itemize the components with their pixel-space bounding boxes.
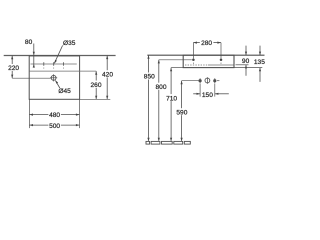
dimension 500 line xyxy=(29,124,79,126)
arrow 420 top (up) xyxy=(106,56,108,60)
arrow 480 right xyxy=(76,114,80,116)
svg-text:480: 480 xyxy=(49,112,60,119)
svg-text:Ø35: Ø35 xyxy=(63,40,76,47)
right view: faucet hole right circle xyxy=(220,58,223,61)
svg-text:80: 80 xyxy=(25,39,33,46)
dimension 135 top line xyxy=(259,46,261,56)
drain circle xyxy=(51,75,56,80)
arrow 710 bottom (down) xyxy=(170,138,172,142)
drain outlet right fixing dot xyxy=(214,80,216,82)
arrow 850 top (up) xyxy=(147,55,149,59)
right view: top edge long line xyxy=(147,54,264,56)
arrow 280 left xyxy=(193,42,197,44)
arrow 135 down xyxy=(259,52,261,56)
label 480 xyxy=(48,111,61,118)
dimension 850 line xyxy=(148,55,150,141)
svg-text:710: 710 xyxy=(166,95,177,102)
dimension 280 line right part xyxy=(213,42,221,44)
svg-text:150: 150 xyxy=(202,92,213,99)
svg-text:280: 280 xyxy=(201,40,212,47)
drain outlet left fixing dot xyxy=(199,80,201,82)
dimension 280 line left part xyxy=(193,42,200,44)
right view: basin front outline xyxy=(183,55,234,67)
faucet centerline xyxy=(31,63,77,65)
label 850 xyxy=(143,73,156,80)
right view: bottom edge extension right xyxy=(234,67,262,69)
arrow 150 right (pointing left) xyxy=(215,93,219,95)
faucet hole center xyxy=(53,62,55,66)
label 150 xyxy=(202,91,215,98)
leader line to Ø35 xyxy=(54,45,62,63)
drain outlet circle xyxy=(205,78,210,83)
dimension 80 line xyxy=(33,44,35,68)
dimension 135 bottom line xyxy=(259,68,261,82)
dimension 150 right arrow line xyxy=(215,93,229,95)
svg-text:590: 590 xyxy=(176,109,187,116)
label 800 xyxy=(155,83,168,90)
svg-text:Ø45: Ø45 xyxy=(58,88,71,95)
dimension 220 line xyxy=(11,56,13,79)
extension line right (480/500) xyxy=(79,99,81,128)
faucet hole left xyxy=(43,62,45,66)
floor bar segment 1 xyxy=(151,141,160,144)
arrow 220 top (up) xyxy=(11,56,13,60)
floor bar segment 2 xyxy=(162,141,173,144)
arrowheads xyxy=(11,42,261,142)
right view: hidden line extension right xyxy=(236,64,249,66)
svg-text:500: 500 xyxy=(49,123,60,130)
right view: hidden dotted line xyxy=(185,64,208,66)
arrow 260 top (up) xyxy=(95,71,97,75)
dimension 590 line xyxy=(181,81,183,141)
arrow leader Ø35 (down-left) xyxy=(54,60,57,64)
drain outlet centerline dash xyxy=(217,80,219,82)
arrow 260 bottom (down) xyxy=(95,96,97,100)
drain outlet circle tick xyxy=(206,77,208,84)
svg-text:420: 420 xyxy=(102,71,113,78)
arrow 500 left xyxy=(29,124,33,126)
svg-text:90: 90 xyxy=(242,58,250,65)
basin outline (top view) xyxy=(29,56,79,99)
label 710 xyxy=(165,94,178,101)
arrow 850 bottom (down) xyxy=(147,138,149,142)
dimension 710 line xyxy=(170,68,172,141)
svg-text:135: 135 xyxy=(254,59,265,66)
dimension 480 line xyxy=(29,114,79,116)
dimension 280 extension right xyxy=(220,43,222,59)
arrow 90 down xyxy=(245,52,247,56)
arrow 220 bottom (down) xyxy=(11,75,13,79)
drain cross vertical xyxy=(53,74,55,81)
arrow 710 top (up) xyxy=(170,68,172,72)
dimension 150 extension left xyxy=(199,84,201,97)
dimension 150 left arrow line xyxy=(193,93,200,95)
dimension 260 line xyxy=(95,71,97,99)
arrow 800 bottom (down) xyxy=(158,138,160,142)
label 220 xyxy=(8,64,20,71)
dimension 90 bottom line xyxy=(245,65,247,76)
floor bar segment 4 xyxy=(184,141,190,144)
arrow 800 top (up) xyxy=(158,60,160,64)
wall line (top view) xyxy=(4,55,116,57)
floor bar segment 0 xyxy=(146,141,150,144)
dimension 800 line xyxy=(158,60,160,141)
arrow 80 down at wall xyxy=(33,52,35,56)
extension line left (480/500) xyxy=(28,99,30,128)
arrow 590 top (up) xyxy=(181,81,183,85)
dimension 220 extension to drain xyxy=(12,77,51,79)
arrow 480 left xyxy=(29,114,33,116)
drain cross horizontal xyxy=(50,77,57,79)
arrow 500 right xyxy=(76,124,80,126)
dimension 710 extension xyxy=(171,67,183,69)
svg-text:850: 850 xyxy=(144,74,155,81)
basin bottom edge extension (to 420/260 dims) xyxy=(80,98,111,100)
floor bar segment 3 xyxy=(174,141,183,144)
right view: faucet hole left circle xyxy=(192,58,195,61)
svg-text:800: 800 xyxy=(155,84,166,91)
label 260 xyxy=(90,81,102,88)
right view: inner bottom edge right part xyxy=(208,64,234,66)
label 500 xyxy=(48,122,61,129)
arrow 135 up xyxy=(259,68,261,72)
label 590 xyxy=(175,108,188,115)
arrow 80 up at faucet line xyxy=(33,64,35,68)
svg-text:260: 260 xyxy=(90,82,101,89)
arrow 90 up xyxy=(245,65,247,69)
arrow 590 bottom (down) xyxy=(181,138,183,142)
arrow 150 left (pointing right) xyxy=(197,93,201,95)
dimension 90 top line xyxy=(245,46,247,56)
arrow 280 right xyxy=(217,42,221,44)
dimension 800 extension xyxy=(159,59,192,61)
leader line to Ø45 xyxy=(55,80,59,88)
label 420 xyxy=(102,70,114,77)
dimension 260 extension line xyxy=(29,70,96,72)
dimension 590 extension xyxy=(182,80,199,82)
arrow 420 bottom (down) xyxy=(106,96,108,100)
faucet hole right xyxy=(63,62,65,66)
arrow leader Ø45 (up-left) xyxy=(55,80,58,84)
svg-text:220: 220 xyxy=(8,65,19,72)
dimension 420 line xyxy=(106,56,108,100)
dimension 280 extension left xyxy=(192,43,194,59)
dimension 150 extension right xyxy=(214,84,216,97)
